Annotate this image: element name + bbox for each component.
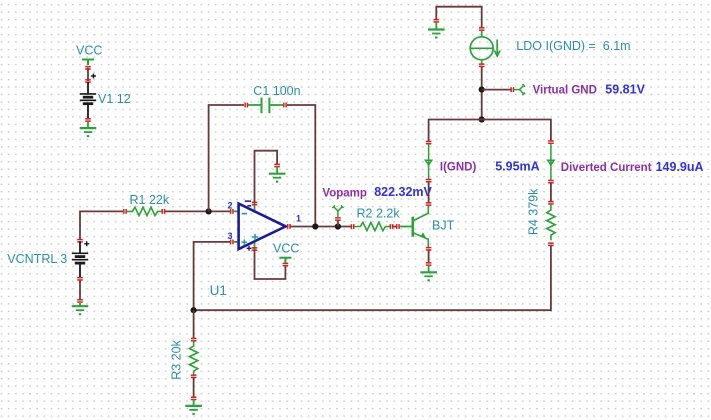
svg-text:5.95mA: 5.95mA (495, 159, 539, 173)
svg-text:R3 20k: R3 20k (170, 339, 184, 379)
pin tick U1 top supply (252, 202, 258, 206)
pin tick R2 left (351, 224, 355, 229)
svg-text:C1 100n: C1 100n (253, 84, 300, 98)
pin tick U1 pin3 (230, 240, 234, 245)
battery VCNTRL 3 (72, 241, 89, 278)
pin tick ground (R3) (191, 397, 197, 401)
wire current source to split node (481, 67, 483, 120)
svg-text:BJT: BJT (432, 219, 455, 233)
wire split rail (429, 120, 551, 142)
wire C1 left branch (209, 105, 244, 211)
svg-text:2: 2 (228, 201, 233, 211)
pin tick ground (77, 299, 83, 303)
capacitor C1 100n (248, 84, 301, 113)
wire U1 top supply to ground loop (255, 151, 278, 202)
power symbol VCC (V1) (76, 44, 102, 66)
pin tick U1 output (287, 224, 291, 229)
pin tick R3 bottom (191, 374, 197, 378)
pin tick C1 right (283, 103, 287, 108)
wire VCNTRL to ground (79, 280, 81, 300)
current arrow I(GND) (425, 144, 431, 180)
pin tick I(GND) arrow bottom (426, 179, 432, 183)
pin tick BJT base (396, 224, 400, 229)
svg-text:3: 3 (228, 231, 233, 241)
wire virtual gnd probe stub (482, 89, 512, 91)
battery V1 12 (80, 74, 131, 120)
ground below VCNTRL (72, 302, 89, 315)
current source LDO (470, 31, 500, 65)
pin tick C1 left (244, 103, 248, 108)
resistor R4 379k (527, 188, 556, 240)
pin tick ground (BJT) (426, 262, 432, 266)
wire top rail (436, 7, 481, 28)
junction node output/C1 (312, 223, 318, 229)
pin tick R2 right (390, 224, 394, 229)
pin tick Virtual GND probe (510, 87, 514, 92)
svg-text:V1 12: V1 12 (98, 92, 131, 106)
svg-text:VCC: VCC (273, 242, 299, 256)
svg-text:1: 1 (296, 214, 301, 224)
resistor R1 22k (127, 193, 170, 216)
svg-text:Diverted Current: Diverted Current (561, 162, 652, 174)
svg-text:R2 2.2k: R2 2.2k (357, 207, 401, 221)
pin tick U1 bottom supply (252, 247, 258, 251)
pin tick VCNTRL plus (77, 239, 83, 243)
pin tick Diverted arrow bottom (548, 180, 554, 184)
pin tick R4 bottom (548, 242, 554, 246)
pin tick U1 pin2 (230, 209, 234, 214)
pin tick current source bottom (479, 63, 485, 67)
current arrow Diverted Current (548, 144, 554, 181)
svg-text:VCC: VCC (76, 44, 102, 58)
junction node feedback/pin2 (206, 208, 212, 214)
transistor BJT (400, 205, 455, 248)
svg-text:I(GND): I(GND) (440, 161, 477, 173)
pin tick VCNTRL minus (77, 277, 83, 281)
pin tick Vopamp probe (335, 217, 341, 221)
pin tick current source top (479, 27, 485, 31)
wire probe stub (337, 220, 339, 227)
pin tick BJT emitter (426, 247, 432, 251)
svg-text:822.32mV: 822.32mV (374, 185, 432, 199)
op-amp U1 (210, 201, 288, 298)
wire R1 to U1 pin2 (165, 210, 231, 212)
voltage probe Vopamp (332, 205, 343, 218)
wire C1 right branch to output node (287, 105, 315, 227)
pin tick R1 left (123, 209, 127, 214)
svg-text:Virtual GND: Virtual GND (533, 84, 597, 96)
pin tick R1 right (162, 209, 166, 214)
ground below V1 (80, 122, 97, 138)
svg-text:R1 22k: R1 22k (130, 193, 170, 207)
resistor R3 20k (170, 339, 198, 379)
resistor R2 2.2k (354, 207, 400, 231)
wire U1 bottom supply to VCC (255, 250, 286, 279)
svg-text:59.81V: 59.81V (605, 82, 645, 96)
svg-text:Vopamp: Vopamp (322, 188, 367, 200)
wire node to R3 (193, 310, 195, 338)
svg-text:VCNTRL 3: VCNTRL 3 (7, 252, 67, 266)
power symbol VCC (op-amp) (273, 242, 299, 264)
junction node virtual gnd (479, 87, 485, 93)
wire R2 to BJT base (393, 226, 397, 228)
pin tick VCC bar (op-amp) (283, 263, 289, 267)
pin tick ground (loop) (274, 164, 280, 168)
junction node output/probe (335, 223, 341, 229)
pin tick ground (top) (434, 19, 440, 23)
junction node split (479, 116, 485, 122)
wire BJT emitter to ground (428, 250, 430, 263)
svg-text:149.9uA: 149.9uA (656, 160, 704, 174)
pin tick V1 plus (85, 79, 91, 83)
wire U1 pin3 branch (194, 242, 231, 310)
pin tick R3 top (191, 338, 197, 342)
pin tick BJT collector (426, 202, 432, 206)
pin tick VCC bar (85, 66, 91, 70)
pin tick Diverted arrow top (548, 140, 554, 144)
voltage probe Virtual GND (514, 84, 525, 95)
pin tick I(GND) arrow top (426, 141, 432, 145)
wire VCC bar to V1 (87, 68, 89, 81)
wire arrow to BJT collector (428, 182, 430, 203)
svg-text:LDO I(GND) = 6.1m: LDO I(GND) = 6.1m (516, 39, 630, 53)
ground below R3 (185, 400, 202, 415)
wire R4 to bottom rail (195, 246, 551, 311)
wire arrow to R4 (550, 183, 552, 202)
junction node bottom-left (191, 307, 197, 313)
wire R3 to ground (193, 378, 195, 398)
ground above op-amp (269, 167, 286, 183)
wire VCNTRL corner to R1 (80, 211, 123, 240)
svg-text:U1: U1 (210, 283, 227, 298)
ground below BJT (420, 265, 437, 281)
pin tick R4 top (548, 201, 554, 205)
wire U1 output to R2 (290, 226, 351, 228)
ground top left (428, 22, 445, 39)
svg-text:R4 379k: R4 379k (527, 188, 541, 235)
pin tick V1 minus / ground (85, 118, 91, 122)
